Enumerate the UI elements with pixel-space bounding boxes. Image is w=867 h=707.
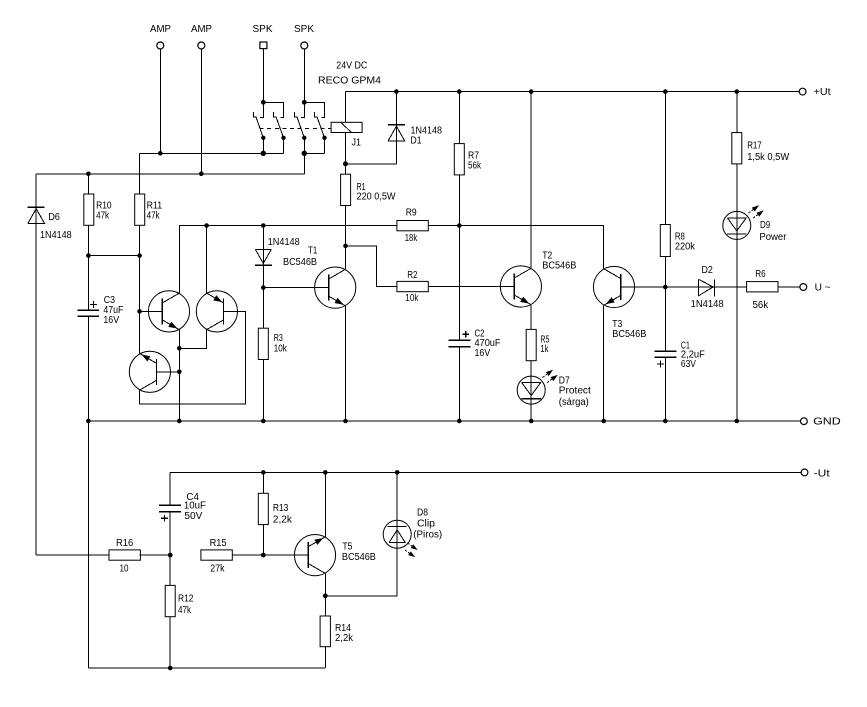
svg-text:R6: R6 xyxy=(755,269,766,280)
transistor T2 BC546B xyxy=(500,251,576,308)
wire Q2 emitter up xyxy=(206,226,208,294)
svg-text:BC546B: BC546B xyxy=(612,329,646,340)
svg-text:AMP: AMP xyxy=(150,24,171,35)
svg-text:56k: 56k xyxy=(753,300,770,311)
terminal -Ut xyxy=(801,469,830,480)
svg-text:D8: D8 xyxy=(417,507,428,518)
svg-text:47k: 47k xyxy=(178,605,192,616)
svg-text:(sárga): (sárga) xyxy=(559,397,589,408)
node T1 base junction xyxy=(261,285,266,290)
label RECO GPM4 xyxy=(318,76,381,87)
svg-text:SPK: SPK xyxy=(253,24,273,35)
wire bottom rail xyxy=(88,666,325,671)
resistor R13 xyxy=(258,472,293,555)
svg-text:J1: J1 xyxy=(352,137,362,148)
terminal +Ut xyxy=(799,87,831,98)
wire AMP1/contacts bus y=153 xyxy=(140,151,284,156)
svg-text:1k: 1k xyxy=(540,344,549,355)
wire +Ut rail xyxy=(346,89,800,94)
svg-text:BC546B: BC546B xyxy=(342,552,376,563)
svg-text:AMP: AMP xyxy=(191,24,212,35)
relay contact set 2 (SPK right, DPDT pole pair) xyxy=(294,100,326,153)
terminal AMP (left) xyxy=(150,24,171,153)
wire Q1 emitter / Q2 collector link xyxy=(177,330,207,421)
transistor Q2 xyxy=(196,291,237,332)
diode D2 1N4148 xyxy=(665,265,746,310)
wire T5 emitter to -Ut xyxy=(324,472,326,536)
svg-text:Clip: Clip xyxy=(417,519,435,530)
resistor R12 xyxy=(165,555,194,668)
svg-text:10k: 10k xyxy=(405,293,419,304)
wire AMP2 bus y=174 xyxy=(36,172,304,177)
wire R10-R11 bottoms y=255.6 xyxy=(86,253,142,258)
svg-text:(Piros): (Piros) xyxy=(413,530,442,541)
transistor Q1 xyxy=(148,291,189,332)
resistor R10 xyxy=(84,174,112,256)
resistor R15 xyxy=(201,538,263,575)
svg-text:D6: D6 xyxy=(48,212,60,223)
terminal SPK (left) xyxy=(253,24,273,102)
terminal U~ xyxy=(800,283,831,294)
svg-text:220k: 220k xyxy=(675,241,696,252)
svg-text:BC546B: BC546B xyxy=(542,260,576,271)
relay coil J1 xyxy=(331,92,362,164)
wire R2 to T2 base xyxy=(428,286,514,288)
relay contact set 1 (SPK left, DPDT pole pair) xyxy=(253,100,285,153)
svg-text:10uF: 10uF xyxy=(184,501,206,512)
terminal AMP (right) xyxy=(191,24,212,174)
resistor R3 xyxy=(258,288,287,421)
resistor R7 xyxy=(454,92,482,226)
wire Q2 base loop xyxy=(140,311,246,403)
diode D6 1N4148 xyxy=(28,174,72,555)
svg-text:63V: 63V xyxy=(681,359,696,370)
svg-text:BC546B: BC546B xyxy=(283,257,317,268)
svg-text:Protect: Protect xyxy=(559,386,591,397)
capacitor C2 470uF xyxy=(448,226,500,422)
wire T3 emitter to GND xyxy=(603,305,605,421)
wire R1 to T1 collector xyxy=(343,206,348,270)
svg-text:R9: R9 xyxy=(406,207,417,218)
node J1/D1/R1 junction xyxy=(343,161,348,166)
wire Q3 base xyxy=(157,371,180,373)
svg-text:-Ut: -Ut xyxy=(814,469,830,480)
wire T1 collector to R2 xyxy=(346,246,397,287)
transistor T3 BC546B xyxy=(593,266,646,339)
svg-text:R12: R12 xyxy=(178,594,194,605)
transistor T5 BC546B xyxy=(294,535,376,576)
svg-text:RECO GPM4: RECO GPM4 xyxy=(318,76,381,87)
resistor R9 xyxy=(397,207,428,244)
svg-text:R13: R13 xyxy=(273,503,289,514)
capacitor C1 2,2uF xyxy=(654,287,705,421)
LED D7 Protect xyxy=(517,361,591,421)
capacitor C4 10uF xyxy=(159,472,206,555)
resistor R5 xyxy=(526,305,549,361)
wire C3 column GND to bottom rail xyxy=(87,421,89,668)
terminal SPK (right) xyxy=(294,24,314,102)
svg-text:10: 10 xyxy=(120,563,129,574)
svg-text:47k: 47k xyxy=(96,211,110,222)
svg-text:R16: R16 xyxy=(116,538,134,549)
svg-text:27k: 27k xyxy=(210,563,225,574)
svg-text:16V: 16V xyxy=(475,348,491,359)
resistor R1 xyxy=(341,164,396,206)
node Q3 base junction xyxy=(177,370,182,375)
wire R9 to T3 collector xyxy=(428,223,604,269)
svg-text:R3: R3 xyxy=(274,333,283,344)
resistor R11 xyxy=(135,153,163,255)
wire GND rail xyxy=(86,419,800,424)
svg-text:56k: 56k xyxy=(468,161,482,172)
resistor R8 xyxy=(660,92,696,287)
resistor R17 xyxy=(732,92,790,164)
resistor R16 xyxy=(36,538,170,575)
svg-text:1N4148: 1N4148 xyxy=(40,230,72,241)
diode 1N4148 at T1 base xyxy=(255,226,300,288)
capacitor C3 47uF xyxy=(78,256,124,421)
wire -Ut rail xyxy=(170,470,801,475)
node C4 / R12 junction xyxy=(168,553,173,558)
wire T3 base xyxy=(621,286,666,288)
svg-text:47k: 47k xyxy=(147,211,161,222)
svg-text:SPK: SPK xyxy=(294,24,314,35)
label 24V DC xyxy=(336,61,367,72)
wire base-drive bus y=225.5 xyxy=(179,223,397,293)
svg-text:16V: 16V xyxy=(103,315,119,326)
wire T5 collector node xyxy=(323,573,397,616)
wire R11 to Q1 base xyxy=(137,256,162,314)
LED D9 Power xyxy=(723,164,787,421)
mechanical link (dashed) to relay J1 xyxy=(260,127,332,129)
svg-text:1N4148: 1N4148 xyxy=(691,299,724,310)
transistor T1 BC546B xyxy=(283,246,356,309)
wire T5 base xyxy=(263,554,308,556)
svg-text:D1: D1 xyxy=(411,136,422,147)
svg-text:R15: R15 xyxy=(210,538,227,549)
svg-text:T5: T5 xyxy=(342,541,352,552)
wire T2 collector to +Ut xyxy=(530,92,532,269)
svg-text:2,2k: 2,2k xyxy=(273,515,293,526)
svg-text:+Ut: +Ut xyxy=(814,87,831,98)
svg-text:Power: Power xyxy=(759,232,787,243)
wire R11 branch to Q3 xyxy=(139,311,141,353)
svg-text:18k: 18k xyxy=(405,233,418,244)
terminal GND xyxy=(801,417,841,428)
diode D1 1N4148 (flyback) xyxy=(346,92,443,164)
resistor R2 xyxy=(397,270,428,304)
svg-text:1N4148: 1N4148 xyxy=(268,237,300,248)
svg-text:220 0,5W: 220 0,5W xyxy=(357,191,397,202)
wire T1 base xyxy=(263,287,328,289)
svg-text:50V: 50V xyxy=(184,511,202,522)
svg-text:R2: R2 xyxy=(407,270,418,281)
transistor Q3 xyxy=(129,351,170,392)
resistor R6 xyxy=(747,269,800,311)
resistor R14 xyxy=(320,616,354,668)
svg-text:D9: D9 xyxy=(760,220,771,231)
wire contacts set2 bus y=153 xyxy=(302,151,325,174)
svg-text:D2: D2 xyxy=(702,265,714,276)
LED D8 Clip xyxy=(383,472,442,595)
wire T1 emitter to GND xyxy=(345,306,347,421)
svg-text:10k: 10k xyxy=(274,344,288,355)
svg-text:GND: GND xyxy=(813,417,841,428)
node T3 base / R8 / C1 / D2 junction xyxy=(663,285,668,290)
node R13 / R15 / T5 base junction xyxy=(261,553,266,558)
svg-text:T1: T1 xyxy=(308,246,318,257)
svg-text:1,5k 0,5W: 1,5k 0,5W xyxy=(747,152,790,163)
svg-text:U ~: U ~ xyxy=(815,283,831,294)
svg-text:24V DC: 24V DC xyxy=(336,61,367,72)
svg-text:2,2k: 2,2k xyxy=(335,633,354,644)
svg-text:R17: R17 xyxy=(747,141,762,152)
